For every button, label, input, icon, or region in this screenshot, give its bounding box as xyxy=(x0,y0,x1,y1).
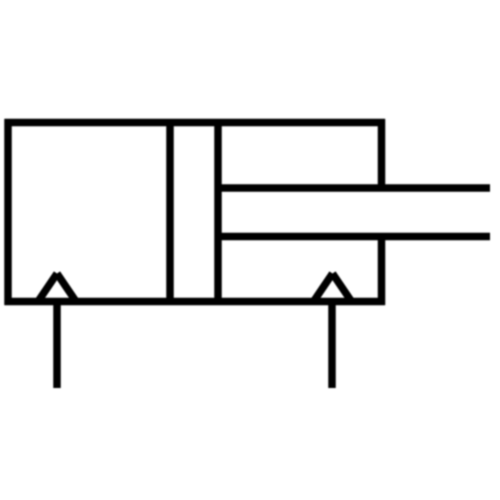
port B arrow xyxy=(314,274,352,302)
piston rod top line xyxy=(218,184,490,192)
cylinder barrel right wall upper segment xyxy=(378,119,386,192)
piston rod bottom line xyxy=(218,233,490,241)
cylinder barrel right wall lower segment xyxy=(378,233,386,305)
piston face line 1 xyxy=(166,123,174,302)
port A arrow xyxy=(38,274,76,302)
cylinder barrel bottom wall xyxy=(5,298,386,306)
piston face line 2 xyxy=(214,123,222,302)
port B line xyxy=(328,302,336,389)
port A line xyxy=(53,302,61,389)
cylinder barrel left wall xyxy=(4,119,12,305)
cylinder barrel top wall xyxy=(5,119,386,127)
